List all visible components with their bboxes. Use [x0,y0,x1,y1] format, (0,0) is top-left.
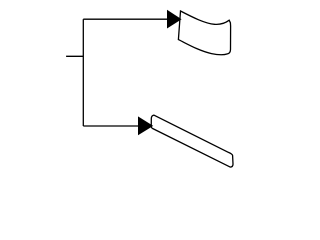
wire: vertical trunk [82,19,84,126]
wire: bottom branch [83,125,139,127]
wire: top branch [83,18,168,20]
arrowhead: bottom arrow [138,116,153,135]
arrowhead: top arrow [167,10,182,29]
node: slanted bar shape [151,115,233,167]
node: curved flag shape [178,11,230,55]
wire: left tick [66,55,83,57]
